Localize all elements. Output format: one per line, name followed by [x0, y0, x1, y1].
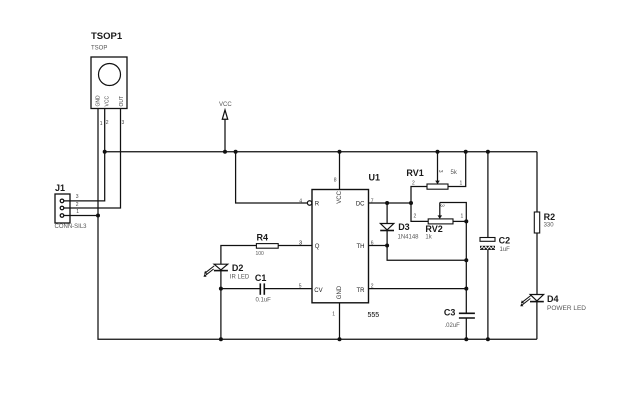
svg-text:TR: TR: [357, 288, 366, 294]
svg-text:6: 6: [371, 241, 374, 247]
svg-text:D4: D4: [547, 294, 559, 304]
svg-text:IR LED: IR LED: [230, 275, 250, 281]
svg-text:TSOP1: TSOP1: [91, 31, 123, 42]
svg-text:1: 1: [76, 209, 79, 215]
svg-text:2: 2: [412, 181, 415, 187]
svg-text:1k: 1k: [425, 235, 432, 241]
diode D2 IR LED: [204, 264, 228, 277]
svg-text:1: 1: [332, 312, 335, 318]
connector J1 body: [55, 194, 70, 223]
wire TSOP1 VCC pin down to J1 pin3: [64, 109, 105, 201]
wire 555 Q pin3 to R4: [278, 245, 312, 247]
svg-text:1: 1: [460, 181, 463, 187]
svg-text:RV2: RV2: [425, 224, 442, 234]
node dot RV1 pin2 DC: [409, 201, 413, 205]
svg-text:R: R: [315, 202, 320, 208]
wire RV1 pin1 to VCC rail: [448, 152, 466, 187]
svg-text:4: 4: [299, 198, 302, 204]
svg-text:DC: DC: [356, 202, 365, 208]
svg-text:CONN-SIL3: CONN-SIL3: [55, 224, 88, 230]
TSOP1 sensor body: [91, 57, 127, 109]
wire D3 TH node down and right: [387, 246, 466, 261]
svg-text:3: 3: [437, 170, 443, 173]
node dot TR link: [464, 287, 468, 291]
node dot TH link: [464, 258, 468, 262]
wire C1 to 555 CV pin5: [264, 288, 312, 290]
svg-text:C3: C3: [444, 308, 456, 318]
wire top VCC rail: [105, 151, 537, 153]
wire TSOP1 OUT pin down to J1 pin2: [64, 109, 121, 209]
wire C2 from VCC rail: [487, 152, 489, 238]
node dot 555 pin8 on rail: [338, 150, 342, 154]
wire 555 pin8 VCC: [339, 152, 341, 190]
capacitor C3: [459, 313, 475, 318]
svg-text:VCC: VCC: [219, 102, 232, 108]
node dot D2 cathode C1: [219, 287, 223, 291]
wire VCC rail to R2: [536, 152, 538, 212]
resistor R4: [256, 244, 278, 249]
svg-text:2: 2: [106, 120, 109, 126]
svg-text:3: 3: [122, 120, 125, 126]
node dot J1 pin1 ground: [96, 214, 100, 218]
svg-text:8: 8: [334, 178, 337, 184]
node dot C3 ground rail: [464, 337, 468, 341]
svg-text:1: 1: [461, 214, 464, 220]
svg-text:1N4148: 1N4148: [398, 235, 420, 241]
svg-text:VCC: VCC: [105, 96, 111, 107]
capacitor C1: [260, 283, 264, 294]
svg-text:GND: GND: [96, 95, 102, 107]
wire J1 pin1 to ground node: [64, 215, 98, 217]
wire R4 to D2 anode: [221, 246, 257, 265]
power symbol VCC arrow: [222, 110, 227, 152]
svg-text:1uF: 1uF: [500, 247, 511, 253]
svg-text:GND: GND: [337, 285, 343, 299]
node dot 555 pin1 ground rail: [338, 337, 342, 341]
wire 555 TH pin6 to D3: [369, 245, 388, 247]
svg-text:7: 7: [371, 198, 374, 204]
wire 555 TR pin2: [369, 288, 467, 290]
wire bottom ground rail: [98, 216, 537, 340]
node dot RV2 pin1: [464, 219, 468, 223]
svg-text:C2: C2: [499, 236, 511, 246]
svg-text:5k: 5k: [451, 170, 458, 176]
svg-text:CV: CV: [314, 288, 322, 294]
wire RV1 pin2 to DC node to RV2 pin2: [411, 187, 428, 222]
node dot C2 on rail: [486, 150, 490, 154]
svg-text:VCC: VCC: [337, 190, 343, 203]
node dot C2 ground rail: [486, 337, 490, 341]
wire C3 to ground rail: [465, 318, 467, 339]
resistor R2: [534, 212, 539, 233]
wire 555 DC pin7 to RV nodes: [369, 202, 412, 204]
svg-text:2: 2: [414, 214, 417, 220]
svg-text:U1: U1: [369, 173, 381, 183]
wire R2 to D4: [536, 233, 538, 295]
svg-text:D3: D3: [398, 222, 410, 232]
node dot D3 anode DC: [385, 201, 389, 205]
wire D4 to ground rail corner: [536, 302, 538, 340]
node dot VCC arrow on rail: [223, 150, 227, 154]
node dot RV1 wiper on rail: [436, 150, 440, 154]
wire RV2 wiper to pin1 vertical: [440, 203, 467, 222]
diode D4 POWER LED: [520, 295, 544, 307]
svg-text:POWER LED: POWER LED: [547, 305, 586, 312]
node dot reset branch on rail: [234, 150, 238, 154]
wire C2 to ground rail: [487, 250, 489, 339]
svg-text:R2: R2: [544, 212, 556, 222]
potentiometer RV2: [428, 203, 453, 224]
wire TH TR C3 vertical node: [465, 221, 467, 313]
node dot D2 ground rail: [219, 337, 223, 341]
svg-text:J1: J1: [55, 183, 65, 193]
svg-text:100: 100: [256, 251, 265, 257]
svg-text:D2: D2: [232, 263, 244, 273]
node dot RV1 pin1 on rail: [464, 150, 468, 154]
svg-text:Q: Q: [315, 244, 320, 250]
svg-text:0.1uF: 0.1uF: [256, 298, 272, 304]
wire D2 cathode to ground rail: [220, 271, 222, 340]
wire D2 node to C1: [221, 288, 260, 290]
node dot D3 cathode TH: [385, 244, 389, 248]
svg-text:5: 5: [299, 284, 302, 290]
svg-text:3: 3: [299, 241, 302, 247]
svg-text:1: 1: [100, 121, 103, 127]
wire 555 pin1 GND: [339, 303, 341, 339]
op-amp U1 555 body: [307, 190, 368, 303]
svg-text:TSOP: TSOP: [91, 46, 107, 52]
svg-text:C1: C1: [255, 273, 267, 283]
svg-text:3: 3: [439, 204, 445, 207]
svg-text:OUT: OUT: [119, 96, 125, 107]
potentiometer RV1: [427, 152, 448, 190]
svg-text:2: 2: [76, 202, 79, 208]
svg-text:2: 2: [371, 284, 374, 290]
svg-text:RV1: RV1: [406, 168, 423, 178]
svg-text:R4: R4: [257, 233, 269, 243]
svg-text:555: 555: [368, 312, 380, 319]
svg-text:3: 3: [76, 194, 79, 200]
capacitor C2 electrolytic: [480, 238, 495, 250]
wire TSOP1 GND pin down to J1 pin1 node: [97, 109, 99, 216]
svg-text:.02uF: .02uF: [445, 323, 461, 329]
wire RV2 pin1: [453, 220, 466, 222]
diode D3 1N4148: [380, 203, 394, 246]
node dot rail-TSOP VCC: [103, 150, 107, 154]
svg-text:TH: TH: [357, 244, 365, 250]
svg-text:330: 330: [544, 223, 555, 229]
wire VCC rail branch to 555 reset pin: [236, 152, 308, 203]
